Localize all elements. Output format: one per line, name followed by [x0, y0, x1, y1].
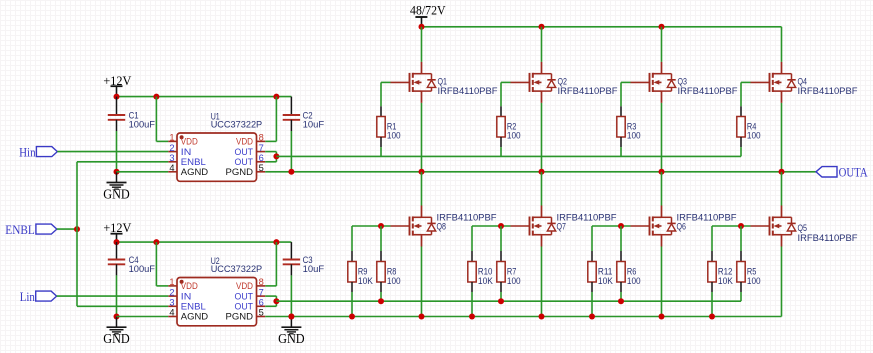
- label R6 100: [627, 267, 641, 286]
- wire U1 PGND to OUTA bus: [265, 171, 816, 173]
- svg-text:10uF: 10uF: [303, 264, 325, 274]
- resistor R12 10K: [708, 262, 716, 283]
- wire source drop Q6: [661, 247, 663, 317]
- junction OUTA col Q3: [659, 169, 665, 175]
- wire AGND U2 pin4: [117, 316, 169, 318]
- label IRFB4110PBF (Q2): [558, 86, 618, 96]
- junction OUTA col Q2: [539, 169, 545, 175]
- wire +12V rail to C2: [117, 96, 292, 98]
- ground GND (lower left): [103, 314, 130, 347]
- wire +12V lower rail to C3: [117, 241, 292, 243]
- svg-text:VDD: VDD: [181, 137, 198, 147]
- svg-text:UCC37322P: UCC37322P: [211, 264, 263, 274]
- svg-text:Q6: Q6: [677, 222, 687, 232]
- junction R8/gate bus: [378, 298, 384, 304]
- svg-text:AGND: AGND: [181, 167, 208, 177]
- junction R7/gate bus: [498, 298, 504, 304]
- svg-text:3: 3: [169, 153, 174, 163]
- junction +12V/C1: [114, 94, 120, 100]
- resistor R4: [737, 117, 745, 138]
- wire Lin to U2 pin2: [57, 295, 169, 297]
- transistor Q6 IRFB4110PBF: [650, 206, 676, 247]
- junction source Q6/GND bus: [659, 314, 665, 320]
- svg-text:2: 2: [169, 287, 174, 297]
- junction +12V/C4: [114, 239, 120, 245]
- label IRFB4110PBF (Q8): [437, 213, 497, 223]
- wire source drop Q7: [541, 247, 543, 317]
- capacitor C4: [108, 242, 125, 275]
- svg-text:PGND: PGND: [226, 312, 254, 322]
- svg-text:+12V: +12V: [103, 220, 132, 235]
- wire drain feed Q4: [781, 27, 783, 62]
- wire VDD U2 pin1 feed: [156, 242, 168, 286]
- svg-text:UCC37322P: UCC37322P: [211, 120, 263, 130]
- label C3 10uF: [303, 255, 325, 274]
- svg-text:ENBL: ENBL: [181, 302, 206, 312]
- transistor Q3 IRFB4110PBF: [650, 62, 676, 103]
- svg-text:100: 100: [387, 130, 401, 140]
- svg-text:OUT: OUT: [235, 147, 254, 157]
- wire gate Q4: [741, 82, 770, 116]
- svg-text:8: 8: [259, 277, 264, 287]
- label R7 100: [507, 267, 521, 286]
- junction +12V/U2 pin1 drop: [153, 239, 159, 245]
- wire VDD pin8 feed: [265, 97, 276, 142]
- wire C1 to GND: [116, 131, 118, 172]
- label R9 10K: [358, 267, 374, 286]
- transistor Q7 IRFB4110PBF: [530, 206, 556, 247]
- wire gate Q3: [621, 82, 650, 116]
- label R8 100: [387, 267, 401, 286]
- capacitor C2: [283, 97, 300, 131]
- wire R4 to gate bus: [740, 137, 742, 156]
- label R3 100: [627, 121, 641, 140]
- junction R11/GND bus: [589, 314, 595, 320]
- wire U1 OUT pin7 join: [265, 152, 276, 157]
- wire R8 top lead: [380, 226, 382, 262]
- svg-text:5: 5: [259, 308, 264, 318]
- power 48/72V: [410, 2, 446, 27]
- junction rail Q2: [539, 24, 545, 30]
- transistor Q5 IRFB4110PBF: [770, 206, 796, 247]
- wire R1 to gate bus: [380, 137, 382, 156]
- junction OUTA col Q4: [779, 169, 785, 175]
- svg-text:Q8: Q8: [437, 222, 447, 232]
- wire R9 to GND bus: [351, 282, 353, 317]
- label IRFB4110PBF (Q4): [798, 86, 858, 96]
- svg-text:100: 100: [387, 276, 401, 286]
- svg-text:Q1: Q1: [438, 76, 448, 86]
- junction gate/R6: [618, 223, 624, 229]
- resistor R7 100: [497, 262, 505, 283]
- svg-text:IRFB4110PBF: IRFB4110PBF: [558, 86, 618, 96]
- svg-text:100uF: 100uF: [129, 120, 156, 130]
- svg-text:100uF: 100uF: [129, 264, 156, 274]
- wire ENBL to U1 pin3: [77, 161, 168, 163]
- label Q2: [558, 76, 568, 86]
- svg-text:IRFB4110PBF: IRFB4110PBF: [438, 86, 498, 96]
- svg-text:8: 8: [259, 133, 264, 143]
- label IRFB4110PBF (Q1): [438, 86, 498, 96]
- label R11 10K: [598, 267, 614, 286]
- junction GND bus/C3: [288, 314, 294, 320]
- junction +12V/pin1 drop: [153, 94, 159, 100]
- label C2 10uF: [303, 110, 325, 129]
- svg-text:GND: GND: [103, 331, 130, 346]
- junction rail Q1: [419, 24, 425, 30]
- label Q4: [798, 76, 808, 86]
- power +12V (upper): [103, 73, 132, 97]
- wire source drop Q3: [661, 103, 663, 172]
- junction OUTA col Q1: [419, 169, 425, 175]
- label IRFB4110PBF (Q3): [678, 86, 738, 96]
- wire drain riser Q6: [661, 172, 663, 206]
- svg-text:Q3: Q3: [678, 76, 688, 86]
- wire drain feed Q3: [661, 27, 663, 62]
- svg-text:48/72V: 48/72V: [410, 2, 446, 17]
- svg-text:100: 100: [627, 130, 641, 140]
- transistor Q2 IRFB4110PBF: [530, 62, 556, 103]
- junction +12V/pin8 drop: [273, 94, 279, 100]
- svg-text:5: 5: [259, 163, 264, 173]
- wire R8 to gate bus: [380, 282, 382, 301]
- svg-text:IN: IN: [181, 147, 192, 157]
- label IRFB4110PBF (Q7): [557, 213, 617, 223]
- wire R6 to gate bus: [620, 282, 622, 301]
- svg-text:OUT: OUT: [235, 291, 254, 301]
- label Q8: [437, 222, 447, 232]
- wire R7 top lead: [500, 226, 502, 262]
- label Q3: [678, 76, 688, 86]
- wire R10 to GND bus: [471, 282, 473, 317]
- label R1 100: [387, 121, 401, 140]
- junction R12/GND bus: [709, 314, 715, 320]
- transistor Q8 IRFB4110PBF: [410, 206, 436, 247]
- svg-text:100: 100: [747, 276, 761, 286]
- node U1 OUT junction: [273, 153, 279, 159]
- wire R5 top lead: [740, 226, 742, 262]
- junction R9/GND bus: [349, 314, 355, 320]
- wire source drop Q5: [781, 247, 783, 317]
- svg-text:VDD: VDD: [236, 281, 253, 291]
- op-amp driver U2 UCC37322P: [168, 256, 265, 326]
- label C4 100uF: [129, 255, 156, 274]
- wire gate Q8: [352, 226, 410, 262]
- junction gate/R5: [738, 223, 744, 229]
- transistor Q4 IRFB4110PBF: [770, 62, 796, 103]
- svg-text:10K: 10K: [718, 276, 734, 286]
- svg-text:Q7: Q7: [557, 222, 567, 232]
- svg-text:Hin: Hin: [19, 145, 36, 159]
- svg-text:100: 100: [747, 130, 761, 140]
- svg-text:10K: 10K: [358, 276, 374, 286]
- wire drain feed Q2: [541, 27, 543, 62]
- resistor R9 10K: [348, 262, 356, 283]
- junction gate/R7: [498, 223, 504, 229]
- svg-text:1: 1: [169, 133, 174, 143]
- wire U2 PGND to GND bus: [265, 316, 781, 318]
- wire R7 to gate bus: [500, 282, 502, 301]
- svg-text:Q4: Q4: [798, 76, 808, 86]
- wire R11 to GND bus: [591, 282, 593, 317]
- svg-text:OUT: OUT: [235, 302, 254, 312]
- svg-text:IRFB4110PBF: IRFB4110PBF: [798, 86, 858, 96]
- wire AGND U1 pin4: [117, 171, 169, 173]
- wire C2 to OUTA bus: [290, 131, 292, 172]
- wire drain feed Q1: [421, 27, 423, 62]
- wire drain riser Q7: [541, 172, 543, 206]
- wire ENBL to junction: [57, 228, 77, 230]
- wire VDD pin1 feed: [156, 97, 168, 142]
- flag ENBL: [5, 223, 57, 237]
- ground GND (upper left): [103, 169, 130, 202]
- wire R6 top lead: [620, 226, 622, 262]
- svg-text:3: 3: [169, 298, 174, 308]
- resistor R5 100: [737, 262, 745, 283]
- label R4 100: [747, 121, 761, 140]
- svg-text:7: 7: [259, 143, 264, 153]
- wire Hin to U1 pin2: [57, 151, 168, 153]
- svg-text:100: 100: [507, 130, 521, 140]
- flag OUTA: [816, 165, 868, 179]
- svg-text:IRFB4110PBF: IRFB4110PBF: [798, 233, 858, 243]
- svg-text:OUT: OUT: [235, 157, 254, 167]
- svg-text:VDD: VDD: [236, 137, 253, 147]
- svg-text:ENBL: ENBL: [181, 157, 206, 167]
- wire R5 to gate bus: [740, 282, 742, 301]
- svg-text:2: 2: [169, 143, 174, 153]
- wire C3 to GND bus: [290, 275, 292, 316]
- label Q5: [798, 223, 808, 233]
- wire U2 OUT pin6 join: [265, 301, 276, 306]
- svg-text:7: 7: [259, 287, 264, 297]
- capacitor C1: [108, 97, 125, 131]
- node ENBL junction: [74, 226, 80, 232]
- wire source drop Q8: [421, 247, 423, 317]
- label Q6: [677, 222, 687, 232]
- resistor R6 100: [617, 262, 625, 283]
- svg-text:PGND: PGND: [226, 167, 254, 177]
- svg-text:GND: GND: [103, 187, 130, 202]
- wire C4 to GND: [116, 275, 118, 316]
- label Q7: [557, 222, 567, 232]
- label R5 100: [747, 267, 761, 286]
- svg-text:4: 4: [169, 163, 174, 173]
- resistor R8 100: [377, 262, 385, 283]
- wire U2 OUT pin7 join: [265, 296, 276, 301]
- label C1 100uF: [129, 110, 156, 129]
- wire ENBL to U2 pin3: [77, 305, 168, 307]
- wire lower gate bus: [276, 300, 741, 302]
- resistor R11 10K: [588, 262, 596, 283]
- wire gate Q1: [381, 82, 410, 116]
- junction source Q7/GND bus: [539, 314, 545, 320]
- wire ENBL vertical: [76, 162, 78, 306]
- svg-text:100: 100: [627, 276, 641, 286]
- op-amp driver U1 UCC37322P: [168, 111, 265, 181]
- junction OUTA/C2: [288, 169, 294, 175]
- transistor Q1 IRFB4110PBF: [410, 62, 436, 103]
- resistor R2: [497, 117, 505, 138]
- svg-text:IN: IN: [181, 291, 192, 301]
- flag Lin: [20, 290, 57, 304]
- svg-text:10K: 10K: [598, 276, 614, 286]
- wire gate Q5: [712, 226, 770, 262]
- wire 48/72V rail: [422, 26, 782, 28]
- wire source drop Q4: [781, 103, 783, 172]
- wire source drop Q2: [541, 103, 543, 172]
- svg-text:100: 100: [507, 276, 521, 286]
- junction rail Q3: [659, 24, 665, 30]
- node U2 OUT junction: [273, 298, 279, 304]
- junction R6/gate bus: [618, 298, 624, 304]
- svg-text:6: 6: [259, 298, 264, 308]
- svg-text:10K: 10K: [478, 276, 494, 286]
- svg-text:Q2: Q2: [558, 76, 568, 86]
- wire U1 OUT pin6 join: [265, 156, 276, 161]
- svg-text:6: 6: [259, 153, 264, 163]
- wire gate Q6: [592, 226, 650, 262]
- label R12 10K: [718, 267, 734, 286]
- wire R12 to GND bus: [711, 282, 713, 317]
- label IRFB4110PBF (Q5): [798, 233, 858, 243]
- wire gate Q7: [472, 226, 530, 262]
- label R10 10K: [478, 267, 494, 286]
- power +12V (lower): [103, 220, 132, 242]
- wire upper gate bus: [276, 155, 741, 157]
- svg-text:ENBL: ENBL: [5, 223, 35, 237]
- wire VDD U2 pin8 feed: [265, 242, 276, 286]
- junction +12V/U2 pin8 drop: [273, 239, 279, 245]
- svg-text:AGND: AGND: [181, 312, 208, 322]
- svg-text:Lin: Lin: [20, 290, 36, 304]
- svg-text:VDD: VDD: [181, 281, 198, 291]
- svg-text:IRFB4110PBF: IRFB4110PBF: [678, 86, 738, 96]
- label Q1: [438, 76, 448, 86]
- wire drain riser Q5: [781, 172, 783, 206]
- svg-text:OUTA: OUTA: [839, 165, 869, 179]
- junction source Q8/GND bus: [419, 314, 425, 320]
- wire R3 to gate bus: [620, 137, 622, 156]
- svg-text:GND: GND: [278, 331, 305, 346]
- svg-text:10uF: 10uF: [303, 120, 325, 130]
- junction R10/GND bus: [469, 314, 475, 320]
- wire gate Q2: [501, 82, 530, 116]
- svg-text:4: 4: [169, 308, 174, 318]
- label R2 100: [507, 121, 521, 140]
- flag Hin: [19, 145, 57, 159]
- wire source drop Q1: [421, 103, 423, 172]
- resistor R10 10K: [468, 262, 476, 283]
- svg-text:1: 1: [169, 277, 174, 287]
- resistor R1: [377, 117, 385, 138]
- svg-text:Q5: Q5: [798, 223, 808, 233]
- wire drain riser Q8: [421, 172, 423, 206]
- ground GND (lower right): [278, 314, 305, 347]
- junction gate/R8: [378, 223, 384, 229]
- label IRFB4110PBF (Q6): [677, 213, 737, 223]
- capacitor C3: [283, 242, 300, 275]
- wire R2 to gate bus: [500, 137, 502, 156]
- resistor R3: [617, 117, 625, 138]
